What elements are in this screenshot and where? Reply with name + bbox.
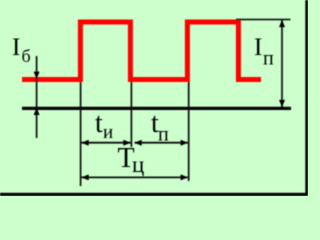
svg-text:б: б <box>22 46 31 66</box>
svg-text:п: п <box>158 124 169 146</box>
axis: zero-current baseline <box>22 107 291 110</box>
svg-text:t: t <box>95 108 103 139</box>
extension line at pulse1 fall (x=131.4) <box>130 82 132 147</box>
waveform: base/pulse current trace <box>22 22 261 80</box>
dimension arrow Iп (pulse level) <box>279 20 285 108</box>
reference line: Iп top level extension <box>236 19 291 21</box>
svg-text:I: I <box>12 34 20 61</box>
svg-text:и: и <box>103 122 113 143</box>
svg-text:п: п <box>263 48 274 70</box>
svg-text:ц: ц <box>132 152 144 177</box>
extension line at pulse2 rise (x=188.7) <box>188 82 190 181</box>
frame border bottom <box>0 193 308 196</box>
svg-text:I: I <box>254 34 262 61</box>
dimension tп (pause width) <box>134 140 188 146</box>
dimension arrow Iб (baseline level) <box>34 56 40 138</box>
dimension Tц (period) <box>81 174 188 180</box>
dimension tи (pulse width) <box>81 140 130 146</box>
frame border right <box>305 0 308 196</box>
extension line at pulse1 rise (x=80.6) <box>80 82 82 186</box>
